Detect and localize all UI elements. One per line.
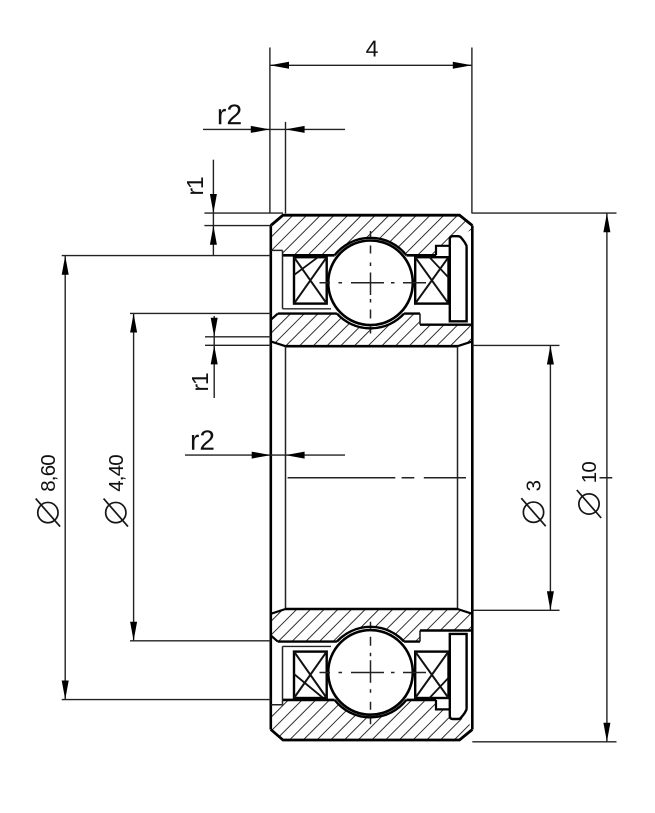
svg-text:3: 3 <box>523 480 546 491</box>
cage X top-left <box>294 257 327 303</box>
inner ring seal surface bottom <box>420 629 472 631</box>
ball bottom <box>328 630 413 715</box>
dimension dia 10 line <box>606 213 608 742</box>
cage X bottom-right <box>415 652 448 698</box>
dimension r2 middle arrows <box>252 452 305 459</box>
inner ring raceway groove arc top <box>337 314 404 329</box>
dimension r1 lower arrows <box>211 318 218 365</box>
bearing right face <box>471 226 474 730</box>
svg-text:4: 4 <box>366 35 379 61</box>
ball bottom horizontal centerline <box>320 672 427 674</box>
outer ring raceway groove arc bottom <box>335 700 407 717</box>
inner ring step bottom <box>419 631 421 642</box>
snap ring notch bottom <box>436 700 450 710</box>
ball top <box>328 240 413 325</box>
dimension dia 4.40 line <box>133 313 135 640</box>
dimension dia 10 extension upper <box>472 212 616 214</box>
bearing outline top edge <box>271 215 473 225</box>
dimension r1 lower extension lower <box>205 344 271 346</box>
dimension 4 arrows <box>270 62 472 69</box>
inner ring seal surface top <box>420 324 472 326</box>
bore chamfer top-right <box>458 341 473 346</box>
main centerline <box>288 477 613 479</box>
dimension dia 8.60 extension lower <box>62 699 271 701</box>
bore chamfer top-left <box>271 341 286 346</box>
dimension r1 lower extension upper <box>205 336 271 338</box>
svg-text:r2: r2 <box>190 425 215 456</box>
svg-text:r2: r2 <box>217 99 242 131</box>
inner ring left chamfer top <box>271 314 278 320</box>
svg-text:8,60: 8,60 <box>37 455 60 492</box>
dimension r1 top extension upper <box>204 212 283 214</box>
dimension r1 top arrows <box>210 194 217 245</box>
outer ring bore line top <box>283 254 437 257</box>
outer ring bore line bottom <box>283 699 437 702</box>
cage extra hatch top-left <box>294 257 318 275</box>
dimension r1 top extension lower <box>204 225 272 227</box>
inner ring step top <box>419 314 421 325</box>
outer ring top hatch <box>271 214 472 255</box>
ball top vertical centerline <box>370 231 372 334</box>
dimension dia 8.60 line <box>64 256 66 700</box>
cage X bottom-left <box>294 652 327 698</box>
svg-text:4,40: 4,40 <box>105 455 128 492</box>
bore line top <box>286 345 458 348</box>
label dia 3 <box>521 480 545 526</box>
bore chamfer edge right <box>457 346 459 609</box>
inner ring top surface <box>278 312 420 314</box>
dimension 4 extension left <box>269 48 271 214</box>
dimension 4 extension right <box>471 48 473 214</box>
shield seat bump top <box>450 236 467 246</box>
dimension dia 3 extension lower <box>472 609 559 611</box>
shield top <box>450 246 467 321</box>
inner ring left chamfer bottom <box>271 635 278 641</box>
dimension dia 3 line <box>549 345 551 610</box>
cage extra hatch bottom-left <box>294 674 323 698</box>
snap ring notch top <box>436 246 450 256</box>
inner ring rib line bottom <box>283 645 332 647</box>
inner ring bottom hatch <box>271 609 473 642</box>
dimension dia 10 arrows <box>603 213 610 742</box>
cage extra hatch top-right <box>430 257 449 277</box>
bore chamfer bottom-left <box>271 609 286 614</box>
dimension r1 top line <box>212 160 214 256</box>
bore line bottom <box>286 608 458 611</box>
dimension dia 10 extension lower <box>472 741 616 743</box>
cage box top-left <box>294 257 327 303</box>
dimension dia 4.40 arrows <box>130 313 137 640</box>
dimension dia 3 arrows <box>547 345 554 610</box>
svg-text:r1: r1 <box>187 373 213 391</box>
cage extra hatch bottom-right <box>430 678 449 698</box>
svg-text:r1: r1 <box>182 177 208 195</box>
label dia 10 <box>577 462 601 518</box>
dimension dia 4.40 extension upper <box>130 312 271 314</box>
inner ring rib line top <box>283 308 332 310</box>
dimension dia 8.60 extension upper <box>62 255 271 257</box>
outer ring recess left top <box>271 250 283 308</box>
ball top horizontal centerline <box>320 282 427 284</box>
dimension dia 4.40 extension lower <box>130 640 271 642</box>
dimension dia 3 extension upper <box>472 344 559 346</box>
dimension dia 8.60 arrows <box>62 256 69 700</box>
dimension 4 line <box>270 64 472 66</box>
bore chamfer edge left <box>285 346 287 609</box>
label dia 8.60 <box>36 455 60 527</box>
dimension r2 top arrows <box>251 126 305 133</box>
shield bottom <box>450 634 467 710</box>
shield seat bump bottom <box>450 709 467 719</box>
cage X top-right <box>415 257 448 303</box>
bearing outline bottom edge <box>271 730 473 741</box>
inner ring top hatch <box>271 314 473 347</box>
ball bottom vertical centerline <box>370 622 372 725</box>
label dia 4.40 <box>104 455 128 527</box>
cage box top-right <box>415 257 448 303</box>
bore chamfer bottom-right <box>458 609 473 614</box>
svg-text:10: 10 <box>578 462 601 484</box>
dimension r1 lower line <box>213 316 215 398</box>
inner ring raceway groove arc bottom <box>337 627 404 642</box>
cage box bottom-left <box>294 652 327 698</box>
outer ring raceway groove arc top <box>335 238 407 255</box>
bearing left face <box>269 226 272 730</box>
cage box bottom-right <box>415 652 448 698</box>
dimension r2 top extension <box>285 122 287 214</box>
dimension r2 top line <box>203 128 345 130</box>
outer ring bottom hatch <box>271 700 472 741</box>
dimension r2 middle line <box>185 454 345 456</box>
inner ring bottom surface <box>278 640 420 642</box>
outer ring recess left bottom <box>271 646 283 704</box>
